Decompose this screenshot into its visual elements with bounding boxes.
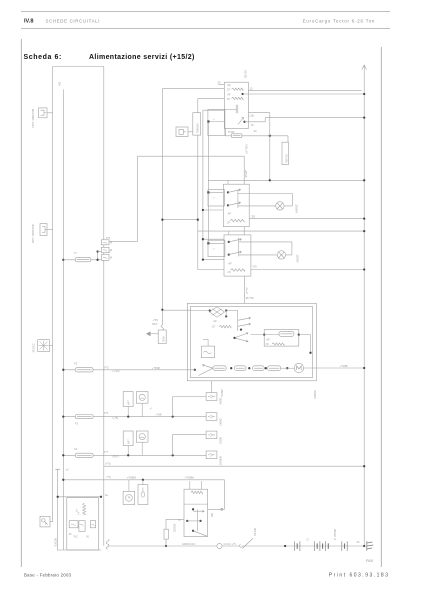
terminal icon 15 xyxy=(80,524,84,526)
wire top bus +30 xyxy=(53,66,104,68)
wire corner up x137 xyxy=(137,156,139,241)
switch S1 blade xyxy=(240,538,253,548)
flasher box xyxy=(202,346,215,358)
connector DPT box1 xyxy=(39,108,47,118)
fuse chain 1 xyxy=(213,366,226,371)
junction right bus y269 xyxy=(363,268,365,270)
svg-text:+*5⁄8: +*5⁄8 xyxy=(156,413,163,417)
svg-text:АВ: АВ xyxy=(210,513,214,517)
starter switch box xyxy=(67,498,99,550)
wire mid-left rail x104 xyxy=(103,67,105,546)
svg-text:CF: CF xyxy=(266,343,270,346)
svg-text:А000С: А000С xyxy=(295,203,299,213)
junction x203 y210 xyxy=(202,209,204,211)
svg-text:M: M xyxy=(110,242,112,245)
wire relay1 output row a xyxy=(248,89,361,91)
relay U3 inner dot b xyxy=(228,253,230,255)
svg-text:*50*59: *50*59 xyxy=(284,154,288,163)
pin icon 50 xyxy=(103,257,107,258)
wire bus relay2 top xyxy=(208,179,364,181)
svg-text:D000: D000 xyxy=(218,418,222,425)
svg-text:30: 30 xyxy=(254,129,257,133)
junction x162 y310 xyxy=(161,309,163,311)
ignition contact arrow xyxy=(193,510,204,512)
wire fuse row2 xyxy=(63,369,195,371)
junction x162 y219 xyxy=(161,219,163,221)
lamp H2 xyxy=(277,251,285,259)
pin icon C000 xyxy=(208,433,215,436)
stub sensor box up xyxy=(142,480,144,485)
header rule bottom xyxy=(21,28,390,30)
gauge icon row2 xyxy=(139,434,145,440)
fuse under relay1 xyxy=(231,134,242,138)
wire relay1 lower out jog xyxy=(264,118,266,122)
wire stub box2 to rail xyxy=(47,229,53,231)
svg-text:CF: CF xyxy=(228,270,232,274)
svg-text:F3: F3 xyxy=(74,362,78,366)
wire x203 to relay3 pin a xyxy=(203,238,224,240)
wire x208 to relay2 pin xyxy=(208,191,223,193)
wire relay1 lower out seg1 xyxy=(245,121,266,123)
wire x203 to relay3 pin b xyxy=(203,259,224,261)
wire corner right y156 xyxy=(138,155,245,157)
svg-text:ВСС: ВСС xyxy=(153,323,158,326)
junction right bus bottom xyxy=(363,545,365,547)
connector box A000 xyxy=(206,393,217,401)
wire x97 to pins xyxy=(98,251,102,253)
wire relay1 aux out y112 xyxy=(248,112,269,114)
junction battery row left xyxy=(284,545,286,547)
svg-text:AF: AF xyxy=(227,92,231,96)
pin box 15 xyxy=(101,247,109,252)
left page border xyxy=(20,39,22,567)
wire central unit to conn1 xyxy=(210,381,212,393)
contact arrow big box a xyxy=(238,317,251,320)
svg-text:15: 15 xyxy=(250,86,253,90)
connector E box xyxy=(176,127,188,137)
starter box bottom rail xyxy=(57,549,101,551)
connector box D000 xyxy=(206,413,217,421)
wire lamp3 loop down xyxy=(291,242,293,255)
svg-text:F*5: F*5 xyxy=(106,236,111,240)
svg-text:15: 15 xyxy=(251,123,254,127)
junction ign a xyxy=(192,508,194,510)
connector circle on ign feed xyxy=(221,508,223,510)
terminal icon 30 xyxy=(71,524,76,526)
icon in box1 xyxy=(41,110,47,115)
chain start contact xyxy=(199,364,214,375)
svg-text:53С00: 53С00 xyxy=(54,538,58,547)
wire relay2 out lower xyxy=(249,218,364,220)
junction chain d xyxy=(286,367,288,369)
wire inner left to diode xyxy=(190,310,209,312)
junction x203 y239 xyxy=(202,238,204,240)
junction AF1 row1 xyxy=(127,415,129,417)
wire ign inner vertical xyxy=(197,509,199,531)
wire sender row2 up xyxy=(172,435,174,456)
wire to label box 150159 xyxy=(287,136,289,142)
svg-text:CF: CF xyxy=(227,97,231,101)
wire x162 tail extension xyxy=(161,319,163,326)
svg-text:30: 30 xyxy=(218,80,221,84)
fuse F1 xyxy=(75,258,90,262)
svg-text:Scheda 6:: Scheda 6: xyxy=(24,54,62,61)
svg-text:*5⁄С: *5⁄С xyxy=(73,535,78,538)
wire rail x57 lower xyxy=(57,469,59,550)
svg-text:DPT 300СС⁄В: DPT 300СС⁄В xyxy=(31,109,35,128)
svg-text:AF: AF xyxy=(213,319,217,323)
connector sub-box left of relay2 xyxy=(208,190,224,206)
fuse chain 2 xyxy=(235,366,247,371)
svg-text:AF: AF xyxy=(228,261,232,265)
wire into big box xyxy=(162,309,190,311)
relay U1 inner vertical b xyxy=(237,105,239,114)
junction right bus y94 xyxy=(363,93,365,95)
central unit inner box xyxy=(190,307,312,378)
junction sender row1 xyxy=(172,415,174,417)
wire lamp loop down xyxy=(291,194,293,206)
relay U2 contact arrow b xyxy=(228,202,241,206)
wire relay2 lamp row xyxy=(238,205,292,207)
icon in box2 xyxy=(42,226,47,232)
connector box3 with star icon xyxy=(38,340,50,352)
svg-text:+*5⁄3: +*5⁄3 xyxy=(153,319,159,322)
junction x63 fuse row2 xyxy=(62,369,64,371)
junction sub box right xyxy=(298,333,300,335)
junction chain b xyxy=(248,367,250,369)
svg-text:F*5: F*5 xyxy=(105,366,110,370)
arrow off-page left xyxy=(147,332,159,336)
chassis connection symbol right xyxy=(367,541,373,551)
wire stub box3 to rail xyxy=(50,345,53,347)
svg-text:SCHEDE CIRCUITALI: SCHEDE CIRCUITALI xyxy=(46,18,101,23)
resistor tag box AF1 row1 xyxy=(123,392,133,407)
wire relay1 top-left pin stub xyxy=(218,84,224,86)
junction diode lower xyxy=(225,315,227,317)
wire bottom bus xyxy=(109,545,364,547)
fuse F2 xyxy=(75,368,93,372)
svg-text:+*5⁄3B8: +*5⁄3B8 xyxy=(127,476,137,480)
connector box D000B xyxy=(206,451,217,459)
battery G4 cells xyxy=(342,541,347,551)
sensor icon xyxy=(141,488,145,498)
wire left rail x52 xyxy=(52,67,54,522)
svg-text:υС: υС xyxy=(66,469,69,472)
junction x203 y259 xyxy=(202,258,204,260)
svg-text:*5⁄3: *5⁄3 xyxy=(252,264,257,268)
stub gauge row2 down xyxy=(141,442,143,455)
fuse chain 4 xyxy=(268,366,281,371)
diode bridge symbol xyxy=(210,307,225,317)
junction right bus y466 xyxy=(363,465,365,467)
stub AF1 row2 down xyxy=(127,446,129,456)
svg-text:DPT 300СС⁄В: DPT 300СС⁄В xyxy=(31,224,35,243)
connector box C000 xyxy=(206,431,217,439)
key icon xyxy=(42,519,48,525)
junction x57 y496 xyxy=(57,496,59,498)
junction big box inlet xyxy=(194,369,196,371)
wire y496 tie xyxy=(58,496,101,498)
junction ign d xyxy=(192,530,194,532)
junction chain a xyxy=(230,367,232,369)
wire down x224 xyxy=(224,480,226,510)
svg-text:AF: AF xyxy=(228,211,232,215)
wire sender row1 to conn1 xyxy=(173,396,206,398)
contact arrow big box d xyxy=(235,338,249,342)
terminal box 15 xyxy=(79,521,85,532)
fuse F3 xyxy=(75,415,93,419)
junction inner box right xyxy=(309,352,311,354)
wire right bus x364 xyxy=(363,65,365,546)
svg-text:(+*єο): (+*єο) xyxy=(113,369,120,373)
relay U3 inner dot a xyxy=(228,241,230,243)
junction y479 x142 xyxy=(142,479,144,481)
wire down x244 to relay2 xyxy=(243,156,245,184)
svg-text:Η*: Η* xyxy=(77,512,81,515)
wire relay3 bottom to central unit feed xyxy=(244,276,246,303)
svg-text:D000В: D000В xyxy=(218,456,222,465)
svg-text:*5⁄3: *5⁄3 xyxy=(251,215,256,219)
junction x63 fuse row1 xyxy=(62,259,64,261)
svg-text:С000: С000 xyxy=(218,437,222,444)
svg-text:F3: F3 xyxy=(75,422,79,426)
relay U1 box xyxy=(224,82,248,128)
svg-text:Alimentazione servizi (+15/2): Alimentazione servizi (+15/2) xyxy=(89,54,195,61)
wire key box to rail xyxy=(50,521,53,523)
junction right bus y218 xyxy=(363,217,365,219)
svg-text:F*7: F*7 xyxy=(104,450,109,454)
pin box 50 xyxy=(101,255,109,261)
svg-text:С 35500: С 35500 xyxy=(333,529,337,540)
wire stub box1 to rail xyxy=(47,112,53,114)
right page border xyxy=(380,47,382,567)
svg-text:τ°: τ° xyxy=(150,407,152,411)
junction diode right xyxy=(225,309,227,311)
svg-text:А000: А000 xyxy=(218,397,222,404)
relay U1 inner vertical a xyxy=(235,105,237,114)
contact arrow big box c xyxy=(235,333,249,338)
wire x198 to relay1 pin xyxy=(198,98,225,100)
pin icon A000 xyxy=(208,395,215,398)
header rule top xyxy=(21,11,390,13)
junction x270 y135.8 xyxy=(269,135,271,137)
gauge box row2 xyxy=(136,431,148,442)
svg-text:F*: F* xyxy=(74,251,77,255)
wire x162-x198 tie xyxy=(162,219,197,221)
ignition box divider xyxy=(184,503,208,505)
wire x203 to relay1 pin xyxy=(203,109,224,111)
relay U3 output bar xyxy=(238,238,240,256)
wire bus y479 xyxy=(63,479,224,481)
svg-text:+*5⁄3B8: +*5⁄3B8 xyxy=(185,476,195,480)
relay U3 contact arrow b xyxy=(229,251,242,255)
component tag box 70866 xyxy=(193,113,201,135)
svg-text:(6**0F): (6**0F) xyxy=(244,144,248,153)
svg-text:F4: F4 xyxy=(74,447,78,451)
svg-text:(+*5): (+*5) xyxy=(105,461,111,465)
fuse chain 3 xyxy=(253,366,265,371)
terminal icon 50 xyxy=(91,524,95,526)
stub bus2 into relay2 pin a xyxy=(227,180,229,184)
connector square x208 relay1 xyxy=(207,120,209,122)
wire fuse F0 row xyxy=(225,135,288,137)
svg-text:CF: CF xyxy=(212,324,216,328)
star icon in box3 xyxy=(39,341,49,351)
junction relay1 out lower xyxy=(243,121,245,123)
svg-text:5350*: 5350* xyxy=(220,388,224,397)
wire flasher up xyxy=(207,339,209,346)
relay U3 coil squiggle xyxy=(231,269,245,272)
svg-text:А000С: А000С xyxy=(313,389,317,399)
junction x63 fuse row3 xyxy=(62,415,64,417)
terminal tick top of x57 xyxy=(55,468,60,470)
narrow sensor box xyxy=(138,485,148,505)
svg-text:+*5⁄3B: +*5⁄3B xyxy=(340,364,348,368)
svg-text:3А: 3А xyxy=(357,541,360,544)
svg-text:Base - Febbraio 2003: Base - Febbraio 2003 xyxy=(24,573,72,578)
wire relay3 bottom row right xyxy=(251,269,364,271)
wire left rail x63 xyxy=(62,89,64,550)
wire bus y466 xyxy=(104,465,364,467)
svg-text:6*10F: 6*10F xyxy=(228,131,235,134)
coil squiggle in sub box xyxy=(272,343,284,345)
ignition switch blade xyxy=(193,531,207,536)
label box 150159 xyxy=(282,142,289,164)
svg-text:F*6: F*6 xyxy=(104,411,109,415)
junction ign b xyxy=(186,520,188,522)
wire feeder x203 xyxy=(202,110,204,259)
arrow cap on right bus xyxy=(362,65,367,70)
connector coil symbol on x162 tail xyxy=(160,325,163,333)
wire x97 up xyxy=(97,252,99,260)
connector circle on bottom wire xyxy=(217,543,222,548)
wire resistor branch top xyxy=(166,518,184,520)
pin icon 15 xyxy=(103,250,107,251)
wire diode to contacts xyxy=(226,310,238,312)
svg-text:3530*: 3530* xyxy=(244,169,248,178)
junction right bus y231 xyxy=(363,230,365,232)
battery G3 cells xyxy=(326,541,329,551)
svg-text:≈≈: ≈≈ xyxy=(213,197,216,200)
relay U1 coil squiggle 2 xyxy=(232,97,244,99)
motor symbol M1 xyxy=(294,363,303,372)
junction right bus y368 xyxy=(363,367,365,369)
gauge box row1 xyxy=(136,392,148,404)
lamp H1 xyxy=(276,202,284,210)
connector square x208 relay2 xyxy=(207,191,209,193)
terminal box 50 xyxy=(90,521,95,528)
relay U1 contact arrow xyxy=(238,118,244,125)
wire flasher left tie xyxy=(203,338,208,340)
svg-text:55*30: 55*30 xyxy=(244,70,248,78)
junction sub box left xyxy=(263,333,265,335)
battery G2 cells xyxy=(315,541,323,551)
relay U2 inner dot a xyxy=(227,191,229,193)
svg-text:С*: С* xyxy=(307,539,310,542)
wire sub box to corner xyxy=(310,335,312,353)
svg-text:3**3*: 3**3* xyxy=(245,286,249,294)
pin icon D000B xyxy=(208,453,215,456)
wire rail104 to corner xyxy=(104,240,138,242)
wire fuse row3 xyxy=(63,416,206,418)
wire relay3 out to lamp loop xyxy=(239,241,292,243)
contact arrow big box b xyxy=(238,323,251,326)
junction big box mid a xyxy=(240,328,242,330)
wire chain segment xyxy=(281,367,295,369)
resistor R1 xyxy=(164,529,168,539)
junction x97 lower xyxy=(96,259,98,261)
stub gauge row1 down xyxy=(141,403,143,416)
junction ign c xyxy=(199,520,201,522)
wire bus relay3 top xyxy=(198,230,364,232)
wire sender row1 up xyxy=(172,397,174,417)
wire x224 into ign box xyxy=(208,508,225,510)
junction big box mid b xyxy=(233,337,235,339)
wire relay2 out to lamp loop xyxy=(238,193,292,195)
svg-text:А000*: А000* xyxy=(295,253,299,262)
wire fuse row4 xyxy=(63,454,206,456)
junction x63 y479 xyxy=(62,479,64,481)
wire x208 to relay3 pin xyxy=(208,242,224,244)
junction diode left xyxy=(209,309,211,311)
junction x97 upper xyxy=(96,250,98,252)
svg-text:D+: D+ xyxy=(105,493,109,497)
wire relay3 lamp row xyxy=(239,254,292,256)
svg-text:(15): (15) xyxy=(250,114,255,118)
wire x270 down to bus2 xyxy=(269,113,271,181)
wire relay1 bottom pin down xyxy=(224,128,226,135)
svg-text:≈≈: ≈≈ xyxy=(213,247,216,250)
relay U3 contact arrow a xyxy=(229,238,242,242)
wire diode lower stub xyxy=(225,311,227,317)
stub bus3 into relay3 pin xyxy=(228,231,230,235)
svg-text:СССС +*5: СССС +*5 xyxy=(224,542,237,546)
coil squiggle in big box xyxy=(219,325,231,327)
svg-text:70866⁄3: 70866⁄3 xyxy=(196,123,200,133)
flasher icon xyxy=(204,351,212,354)
pin icon 30 xyxy=(103,242,107,243)
connector sub-box left of relay3 xyxy=(208,240,225,256)
svg-text:А000СССС: А000СССС xyxy=(182,542,196,546)
svg-text:M: M xyxy=(110,249,112,252)
svg-text:50: 50 xyxy=(86,535,89,538)
relay U1 coil squiggle 1 xyxy=(232,88,244,90)
wire resistor branch vertical xyxy=(165,519,167,546)
junction relay1 out upper xyxy=(241,93,243,95)
relay U2 output bar xyxy=(237,190,239,209)
relay U1 inner pin row xyxy=(224,108,236,110)
connector DPT box2 xyxy=(40,224,47,236)
wire x162 corner to relay1 xyxy=(162,88,224,90)
relay U3 box xyxy=(224,235,251,276)
svg-text:35 *5С: 35 *5С xyxy=(246,296,255,300)
stub AF1 row1 down xyxy=(127,407,129,417)
clock box xyxy=(123,491,135,504)
ignition coil squiggle xyxy=(191,491,203,494)
terminal box 30 xyxy=(69,521,78,528)
svg-text:AF: AF xyxy=(266,337,270,341)
wire E box to tag xyxy=(188,131,193,133)
ignition relay box xyxy=(184,489,208,536)
wire relay3 bottom row left xyxy=(198,269,224,271)
pin box 30 xyxy=(101,240,109,245)
wire relay1 output row b xyxy=(243,93,365,95)
connector square x208 relay3 xyxy=(207,242,209,244)
icon in E box xyxy=(179,129,186,134)
wire feeder x162 xyxy=(161,89,163,319)
battery G1 cells xyxy=(295,541,300,551)
svg-text:(ЛА*): (ЛА*) xyxy=(113,455,119,459)
